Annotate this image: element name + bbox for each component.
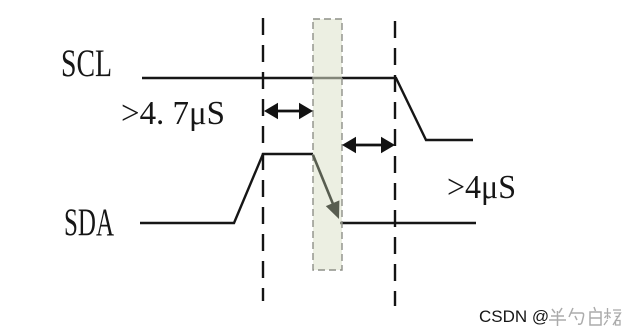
double arrow 2 (hold time) xyxy=(342,137,395,153)
highlight band xyxy=(313,19,342,270)
svg-text:>4μS: >4μS xyxy=(447,169,516,206)
SDA signal trace left xyxy=(140,154,313,223)
highlight band dashed border xyxy=(313,19,342,270)
watermark char ban xyxy=(549,308,566,326)
dashed guide line right xyxy=(394,21,396,306)
watermark char shao xyxy=(569,308,584,324)
gray falling pointer arrow xyxy=(313,155,339,219)
double arrow 1 (setup time) xyxy=(264,103,313,119)
svg-text:CSDN @: CSDN @ xyxy=(479,307,549,326)
SCL signal trace xyxy=(142,78,473,140)
svg-text:SDA: SDA xyxy=(64,201,114,244)
watermark char tang xyxy=(604,308,621,325)
dashed guide line left xyxy=(262,18,264,301)
SDA signal trace right xyxy=(340,222,476,224)
watermark char bai xyxy=(590,307,601,325)
svg-text:SCL: SCL xyxy=(61,42,112,85)
svg-text:>4. 7μS: >4. 7μS xyxy=(121,95,225,132)
